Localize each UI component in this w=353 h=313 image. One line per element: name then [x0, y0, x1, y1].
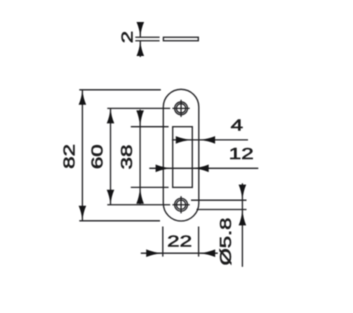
dim 4 arrow right (points left, tip at plate right edge)	[199, 136, 215, 144]
top screw hole outer circle	[175, 102, 188, 115]
dim 12 arrow left (points right, tip at slot left edge)	[156, 165, 172, 173]
svg-text:82: 82	[61, 144, 79, 169]
dim 38 extension line top	[131, 126, 169, 128]
dim 4 dimension line	[172, 139, 248, 141]
latch slot rectangle	[173, 127, 193, 188]
dim dia5.8 extension line bottom	[197, 209, 247, 211]
dim 60 dimension line	[110, 108, 112, 204]
dim 38 arrow top (points down, outside)	[136, 110, 144, 126]
dim 82 arrow top (points up)	[79, 90, 87, 105]
dim 12 arrow right (points left, tip at slot right edge)	[193, 165, 209, 173]
dim 2 extension line top	[135, 36, 159, 38]
bottom screw hole inner circle	[176, 200, 185, 209]
dim 12 dimension line	[149, 167, 258, 169]
dim 38 arrow bottom (points up, outside)	[136, 188, 144, 204]
dim 2 dimension line upper segment	[139, 22, 141, 37]
dim 22 arrow right (points left)	[199, 249, 215, 257]
dim 22 arrow left (points right)	[146, 249, 162, 257]
svg-text:22: 22	[167, 233, 192, 251]
svg-text:2: 2	[119, 31, 137, 43]
dim 38 dimension line	[139, 110, 141, 205]
dim 82 extension line bottom	[79, 220, 160, 222]
dim 22 dimension line	[141, 252, 218, 254]
svg-text:Ø5.8: Ø5.8	[218, 218, 235, 266]
dim 60 arrow bottom (points down)	[107, 190, 115, 205]
bottom screw hole outer circle	[175, 198, 188, 211]
dim 2 arrow bottom (points up)	[137, 41, 145, 56]
dim 60 extension line top	[107, 107, 170, 109]
top screw hole cross vertical	[180, 100, 182, 117]
dim 60 extension line bottom	[107, 204, 170, 206]
bottom screw hole cross vertical	[180, 196, 182, 213]
dim dia5.8 extension line top	[191, 199, 247, 201]
side view plate (top view)	[163, 37, 198, 41]
dim 22 extension line right	[198, 227, 200, 257]
dim 82 arrow bottom (points down)	[79, 206, 87, 221]
dim 2 dimension line lower segment	[139, 41, 141, 57]
bottom screw hole cross horizontal	[172, 204, 189, 206]
dim 82 extension line top	[79, 89, 161, 91]
plate outline (front view stadium)	[163, 89, 199, 221]
dim dia5.8 dimension line	[241, 183, 243, 266]
top screw hole inner circle	[176, 104, 185, 113]
svg-text:12: 12	[229, 145, 254, 163]
dim dia5.8 arrow bottom (points up, outside)	[239, 210, 247, 226]
dim 38 extension line bottom	[131, 186, 169, 188]
svg-text:38: 38	[118, 145, 136, 170]
dim dia5.8 arrow top (points down, outside)	[239, 185, 247, 200]
dim 2 extension line bottom	[135, 40, 159, 42]
top screw hole cross horizontal	[172, 107, 189, 109]
dim 2 arrow top (points down)	[137, 22, 145, 37]
dim 60 arrow top (points up)	[107, 108, 115, 123]
dim 4 arrow left (points right, tip at slot right edge)	[176, 136, 192, 144]
svg-text:60: 60	[89, 144, 107, 169]
dim 82 dimension line	[81, 90, 83, 221]
svg-text:4: 4	[231, 117, 244, 135]
dim 22 extension line left	[162, 227, 164, 257]
